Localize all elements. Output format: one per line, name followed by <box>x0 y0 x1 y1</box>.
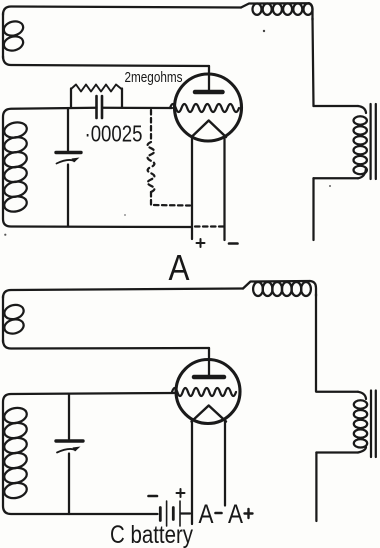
resistor R1 grid leak 2 megohms <box>71 85 122 92</box>
transformer T2 core <box>370 391 372 458</box>
tube V2 filament <box>192 406 227 422</box>
wire: lower transformer top stub <box>316 391 358 393</box>
grid return dashed wavy (leak to filament +) <box>148 110 190 206</box>
inductor L1 tuning coil <box>3 120 28 213</box>
wire: lower plate wire <box>3 340 209 349</box>
transformer T1 core <box>369 104 371 179</box>
inductor L4 tuning coil lower <box>3 406 28 500</box>
scan speck <box>124 214 126 216</box>
wire: lower variable capacitor branch lower <box>68 454 70 515</box>
wire: lower right vertical upper <box>315 294 317 392</box>
wire: battery to filament leg <box>181 512 190 514</box>
tube V2 grid <box>172 388 236 396</box>
tube V1 plate <box>195 90 223 95</box>
inductor L0: aerial coupling loops top left <box>2 19 25 52</box>
wire: plate lead into tube V1 <box>208 66 210 91</box>
wire: lower aerial loop top side <box>3 289 243 299</box>
inductor L3: RF coil top right <box>241 3 313 20</box>
wire: right vertical lower open end <box>312 178 314 240</box>
svg-text:2megohms: 2megohms <box>125 69 183 86</box>
battery minus sign <box>149 495 158 498</box>
inductor L6 RF coil lower right <box>243 281 316 296</box>
wire: grid leak right connector <box>121 89 123 108</box>
tube V1 grid <box>170 104 239 112</box>
wire: variable capacitor branch lower <box>67 165 69 227</box>
battery BT1 C battery plates <box>159 508 162 521</box>
wire: V2 filament right leg (A+) <box>224 420 226 506</box>
wire: V2 filament left leg (A-) <box>191 420 193 524</box>
wire: lower grid wire / tuned loop <box>3 393 174 514</box>
wire: filament left leg <box>191 136 193 239</box>
wire: grid wire right of capacitor <box>102 107 172 109</box>
wire: grid wire / tuned loop top <box>3 108 191 227</box>
wire: variable capacitor branch upper <box>67 109 69 151</box>
battery plus mark (A battery +) <box>197 242 205 244</box>
svg-text:C battery: C battery <box>110 521 193 548</box>
transformer T2 primary coil <box>354 392 367 453</box>
wire: plate lead into tube V2 <box>208 348 210 376</box>
tube V2 plate <box>194 375 224 380</box>
vacuum tube V2 envelope <box>176 360 240 424</box>
wire: lower right vertical open end <box>315 453 317 522</box>
variable capacitor C3 top plate <box>56 439 83 442</box>
scan speck <box>263 30 265 32</box>
wire: filament right leg <box>223 138 225 240</box>
dashed wire: filament legs jumper <box>195 225 224 227</box>
vacuum tube V1 envelope <box>175 74 242 141</box>
wire: lower transformer bottom stub <box>316 451 358 453</box>
transformer T1 primary coil <box>354 106 367 178</box>
capacitor C1 .00025 grid condenser plates <box>95 96 98 118</box>
wire: transformer bottom stub <box>314 177 359 179</box>
variable capacitor C2 rotor arrow <box>57 160 75 164</box>
wire: lower variable capacitor branch upper <box>68 394 70 439</box>
svg-text:A: A <box>169 247 190 288</box>
svg-text:A: A <box>228 499 243 529</box>
wire: grid leak left connector <box>70 89 72 108</box>
scan speck <box>4 234 6 236</box>
svg-text:A: A <box>199 499 214 529</box>
svg-text:·00025: ·00025 <box>85 121 143 147</box>
scan speck <box>329 185 331 187</box>
battery plus sign <box>177 492 185 494</box>
variable capacitor C2 top plate <box>56 151 81 154</box>
wire: lower aerial loop left side <box>2 296 4 342</box>
wire: aerial loop top side <box>3 7 241 16</box>
inductor L5 aerial coupling loops lower left <box>3 303 26 336</box>
wire: transformer top stub <box>314 105 359 107</box>
wire: plate wire (loop bottom side) <box>3 56 209 66</box>
variable capacitor C3 rotor arrow <box>57 449 76 453</box>
wire: aerial loop left side <box>2 13 4 58</box>
tube V1 filament <box>192 121 227 138</box>
wire: right vertical upper (plate supply) <box>313 18 314 106</box>
battery minus mark (A battery -) <box>229 242 238 245</box>
